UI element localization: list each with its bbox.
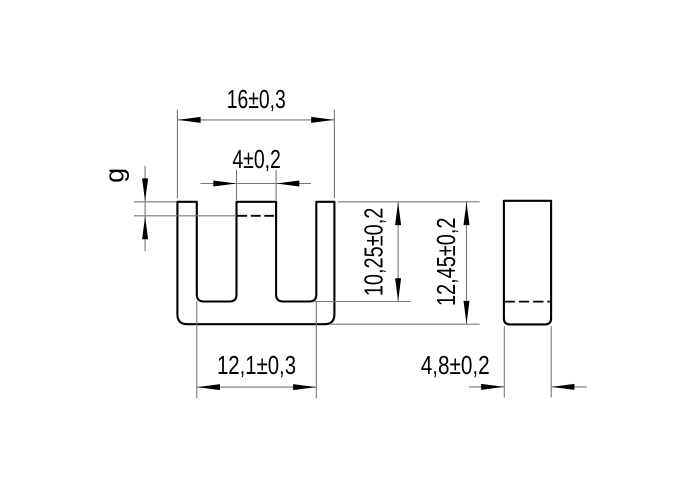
svg-text:12,45±0,2: 12,45±0,2	[433, 218, 461, 307]
dimension 4±0,2 arrow right	[276, 181, 299, 187]
svg-text:12,1±0,3: 12,1±0,3	[217, 352, 296, 380]
dimension 4±0,2 extension line right	[275, 170, 277, 200]
dimension 12,45±0,2 arrow bottom	[464, 301, 470, 324]
dimension 12,1±0,3 extension line left	[196, 302, 198, 399]
dimension 12,1±0,3 arrow right	[293, 384, 316, 390]
dimension 16±0,3 extension line left	[176, 110, 178, 199]
dimension 10,25±0,2 line	[397, 202, 399, 302]
dimension g arrow upper	[142, 178, 148, 201]
shared top extension line right	[338, 201, 480, 203]
dimension 4,8±0,2 extension line left	[503, 326, 505, 398]
dimension 12,1±0,3 arrow left	[197, 384, 220, 390]
dimension 4,8±0,2 extension line right	[550, 326, 552, 398]
dimension 16±0,3 arrow left	[178, 117, 201, 123]
dimension 4±0,2 arrow left	[213, 181, 236, 187]
dimension g line	[144, 166, 146, 252]
svg-text:4±0,2: 4±0,2	[232, 146, 281, 174]
dimension 12,1±0,3 line	[197, 386, 316, 388]
dimension 4,8±0,2 arrow right	[551, 384, 574, 390]
svg-text:10,25±0,2: 10,25±0,2	[361, 208, 389, 297]
dimension g arrow lower	[142, 216, 148, 239]
dimension 16±0,3 extension line right	[333, 110, 335, 199]
svg-text:g: g	[100, 168, 130, 183]
svg-text:4,8±0,2: 4,8±0,2	[421, 352, 490, 380]
dimension 4,8±0,2 line left	[469, 386, 504, 388]
dimension 4,8±0,2 line right	[551, 386, 587, 388]
center leg gap dashed line	[237, 215, 275, 217]
dimension 12,45±0,2 extension line bottom	[330, 323, 480, 325]
dimension 4±0,2 extension line left	[236, 170, 238, 200]
dimension 10,25±0,2 extension line bottom	[315, 301, 411, 303]
dimension 12,45±0,2 arrow top	[464, 202, 470, 225]
dimension g extension line bottom	[134, 215, 237, 217]
side view outline	[504, 201, 551, 325]
dimension 4±0,2 line	[200, 183, 311, 185]
dimension 16±0,3 arrow right	[311, 117, 334, 123]
dimension 12,45±0,2 line	[466, 202, 468, 324]
dimension 10,25±0,2 arrow bottom	[395, 278, 401, 301]
dimension 16±0,3 line	[177, 119, 334, 121]
dimension 4,8±0,2 arrow left	[481, 384, 504, 390]
dimension 10,25±0,2 arrow top	[395, 202, 401, 225]
front view E-core outline	[177, 202, 334, 324]
dimension 12,1±0,3 extension line right	[315, 302, 317, 399]
side view gap dashed line	[505, 301, 551, 303]
svg-text:16±0,3: 16±0,3	[227, 86, 286, 114]
dimension g extension line top	[134, 201, 177, 203]
